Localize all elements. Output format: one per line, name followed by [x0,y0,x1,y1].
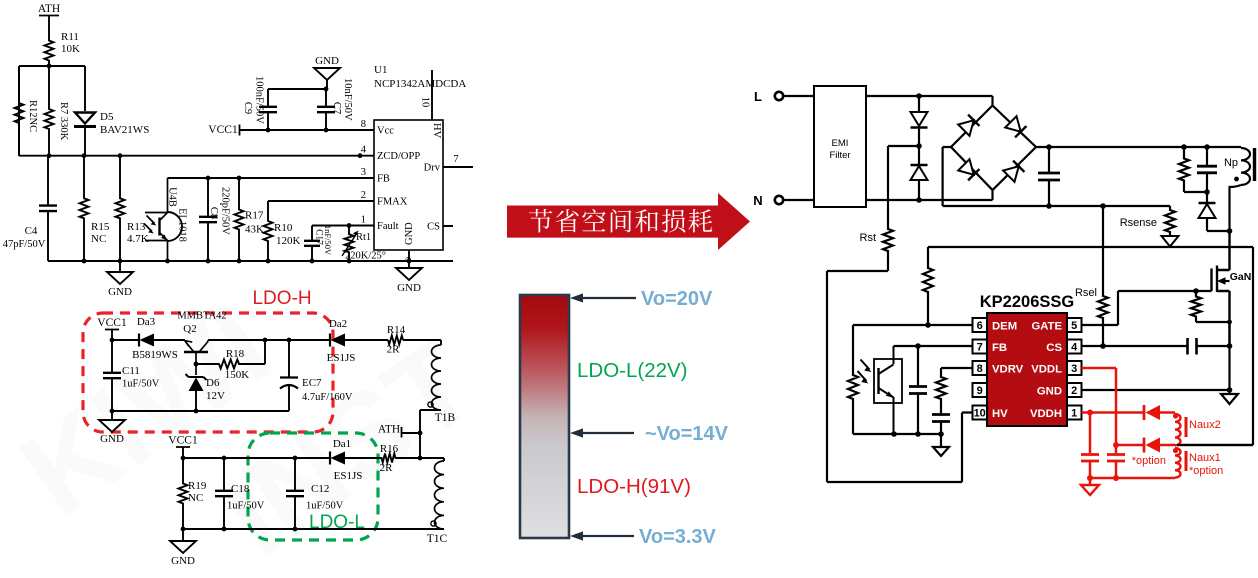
svg-text:7: 7 [977,342,983,354]
svg-text:4.7uF/160V: 4.7uF/160V [302,392,353,403]
diode clamp [1199,192,1230,231]
wire LDO-H collector rail [208,339,330,341]
svg-text:Vcc: Vcc [377,126,394,137]
pin CS [427,222,453,233]
junction dot VDDH [1087,410,1093,416]
optocoupler U4B EL1018 [144,178,188,261]
svg-text:1uF/50V: 1uF/50V [227,501,265,512]
svg-text:R13: R13 [127,221,146,233]
junction dot drain top [1227,228,1233,234]
EMI filter box [814,86,866,207]
wire T1B bottom [420,410,441,458]
capacitor C8 220pF/50V [199,178,231,261]
svg-text:LDO-H(91V): LDO-H(91V) [577,475,691,498]
junction dot gate res [1193,288,1199,294]
LDO-L dashed box [248,433,378,540]
resistor R10 120K [264,201,301,261]
terminal L [754,89,814,104]
wire source-CS [1228,322,1230,346]
pin 2 FMAX [361,190,408,208]
ground GaN source [1221,390,1238,404]
resistor R14 2R [387,324,441,356]
label LDO-L(22V) [577,359,688,382]
junction dots ZCD line [47,153,363,158]
svg-text:GaN: GaN [1230,271,1252,283]
optocoupler feedback [858,346,903,434]
svg-text:C18: C18 [231,483,250,495]
svg-text:5: 5 [1071,320,1077,332]
capacitor EC7 4.7uF/160V [280,340,353,411]
svg-text:LDO-L(22V): LDO-L(22V) [577,359,688,382]
svg-text:KP2206SSG: KP2206SSG [980,293,1074,311]
capacitor aux C2 [1107,445,1125,478]
svg-text:GND: GND [1037,386,1062,398]
resistor snubber [1179,147,1189,192]
diode D5 BAV21WS [74,66,149,156]
diode Da2 ES1JS [327,318,388,364]
svg-text:C12: C12 [311,483,329,495]
net ATH top port [38,3,60,35]
svg-text:R16: R16 [380,443,399,455]
svg-text:ATH: ATH [38,3,60,15]
bridge rectifier frame [951,106,1036,191]
svg-text:HV: HV [992,408,1008,420]
wire CS net [1082,345,1230,347]
capacitor aux C1 [1081,413,1099,479]
svg-text:43K: 43K [245,224,264,236]
svg-text:MMBTA42: MMBTA42 [177,311,226,322]
svg-text:8: 8 [977,363,983,375]
junction dot ATH [418,431,423,436]
resistor R19 NC [179,458,207,529]
wire FB net [894,345,973,347]
svg-text:C11: C11 [122,365,140,377]
svg-text:1: 1 [361,215,366,226]
junction dots red bottom [1087,475,1119,481]
svg-text:GATE: GATE [1031,321,1062,333]
svg-text:NC: NC [188,492,203,504]
capacitor C9 100nF/50V [242,76,277,130]
resistor R16 2R [380,443,444,474]
wire aux mid red [1116,444,1175,447]
inductor Naux1 [1090,448,1223,478]
junction dots FB line [206,176,242,181]
svg-text:2: 2 [1071,385,1077,397]
svg-text:2: 2 [361,190,366,201]
svg-text:R15: R15 [91,221,110,233]
resistor R7 330K [45,66,70,156]
svg-text:ATH: ATH [378,424,400,436]
resistor Rsense [1120,206,1179,247]
wire DC plus rail [1036,146,1241,148]
svg-text:9: 9 [977,385,983,397]
wire FMAX net [268,200,374,202]
svg-text:C9: C9 [242,102,253,114]
transistor Q2 MMBTA42 [177,311,226,376]
arrow Vo=3.3V [570,526,717,548]
junction dots DC minus [1046,203,1106,209]
svg-text:Da3: Da3 [137,316,156,328]
svg-text:C17: C17 [314,229,324,245]
resistor R17 43K [235,178,265,261]
resistor R13 4.7K [116,156,149,261]
capacitor snubber [1197,147,1217,192]
wire bottom bus [48,260,453,262]
svg-text:R11: R11 [61,31,79,43]
bridge diode top-left [958,115,979,136]
LDO-L label [309,512,365,533]
wire HV net [827,271,973,482]
ground GND chip [396,261,422,294]
svg-text:6: 6 [977,320,983,332]
svg-text:100nF/50V: 100nF/50V [254,76,265,124]
svg-text:4: 4 [361,145,367,156]
wire VDDH red net [1082,411,1145,414]
junction dot C7 top [324,87,329,92]
inductor Np primary [1224,147,1250,231]
bridge diode bottom-right [1003,161,1024,182]
net ATH port LDO [378,424,420,438]
inductor T1C [427,458,448,545]
net VCC1 LDO-H port [97,317,127,340]
arrow ~Vo=14V [570,423,729,445]
watermark [0,279,499,578]
resistor R11 [45,31,81,66]
svg-text:Np: Np [1224,157,1238,169]
junction dot FB [915,343,921,349]
svg-text:D6: D6 [206,377,220,389]
ground GND LDO-H [99,411,125,445]
junction dots Vcc line [266,128,329,133]
wire C9-C7 top [268,88,326,90]
svg-text:4.7K: 4.7K [127,233,149,245]
svg-text:U1: U1 [374,64,387,76]
wire LDO-H top rail [112,339,185,341]
svg-text:*option: *option [1132,455,1166,467]
svg-text:R18: R18 [226,348,245,360]
svg-text:2R: 2R [380,462,394,474]
svg-text:EMI: EMI [832,138,849,149]
capacitor C11 1uF/50V [103,340,160,411]
svg-text:GND: GND [108,286,132,298]
chip KP2206SSG [980,293,1074,426]
svg-text:GND: GND [315,55,339,67]
svg-text:Da2: Da2 [329,318,347,330]
capacitor C17 1nF/50V [304,225,333,261]
svg-text:Fault: Fault [377,221,399,232]
wire LDO-L top rail [183,457,381,459]
svg-text:ZCD/OPP: ZCD/OPP [377,151,420,162]
wire top box [19,66,85,156]
diode startup upper [911,96,928,146]
junction dots DC plus [1046,144,1210,150]
bridge diode top-right [1005,116,1026,137]
svg-text:Rsense: Rsense [1120,217,1157,229]
wire GND net [1082,389,1230,391]
junction dots LDO-L top [181,456,423,461]
resistor R18 150K [196,340,265,381]
svg-text:CS: CS [427,222,440,233]
arrow Vo=20V [570,288,713,310]
pin 10 HV [420,70,443,139]
svg-text:FB: FB [992,342,1007,354]
svg-text:HV: HV [431,123,442,139]
label LDO-H(91V) [577,475,691,498]
diode aux lower option [1132,438,1166,468]
capacitor bulk [1038,147,1060,206]
svg-text:N: N [753,193,762,208]
transformer core [1253,148,1256,181]
pin 3 FB [361,167,390,185]
capacitor C18 1uF/50V [215,458,265,529]
wire L rail [866,96,993,106]
svg-text:1uF/50V: 1uF/50V [122,379,160,390]
op-amp U1 NCP1342AMDCDA box [374,64,466,250]
svg-text:DEM: DEM [992,321,1017,333]
pin 7 Drv [424,154,473,174]
svg-text:1uF/50V: 1uF/50V [306,501,344,512]
resistor gate-source [1191,291,1232,324]
transistor GaN mosfet [1118,231,1251,346]
wire bridge minus jog [943,147,951,206]
svg-text:R7 330K: R7 330K [58,102,69,141]
bridge diode bottom-left [958,159,979,180]
ground GND LDO-L [170,529,196,567]
svg-text:EC7: EC7 [302,377,322,389]
svg-text:6: 6 [404,257,414,261]
thermistor Rt1 220K/25 [342,226,386,262]
svg-text:LDO-H: LDO-H [252,288,311,309]
LDO-H label [252,288,311,309]
svg-text:VDRV: VDRV [992,364,1024,376]
ground GND left [107,261,133,298]
inductor Naux2 [1173,413,1221,445]
svg-text:Naux2: Naux2 [1189,419,1221,431]
svg-text:FMAX: FMAX [377,197,408,208]
capacitor FB filter [909,346,927,434]
svg-text:Rsel: Rsel [1075,287,1097,299]
svg-text:220K/25°: 220K/25° [345,251,386,262]
wire source-gnd [1228,346,1230,390]
svg-text:GND: GND [100,433,124,445]
diode Da3 B5819WS [132,316,178,361]
wire ZCD/OPP net [19,155,374,157]
wire DEM net [853,324,973,326]
svg-text:T1C: T1C [427,533,448,545]
svg-text:NC: NC [91,233,106,245]
svg-text:*option: *option [1189,465,1223,477]
terminal N [753,193,814,208]
capacitor C7 10nF/50V [317,78,353,130]
svg-text:FB: FB [377,174,390,185]
svg-text:Q2: Q2 [183,323,196,335]
resistor R12 NC [15,66,39,156]
zener D6 12V [186,374,226,411]
wire black aux tap [1177,444,1253,446]
junction dots collector rail [263,338,292,343]
svg-text:10: 10 [974,408,986,420]
pin 8 Vcc [361,119,394,137]
svg-text:Filter: Filter [829,150,850,161]
svg-text:BAV21WS: BAV21WS [100,124,149,136]
svg-text:U4B: U4B [167,187,178,207]
svg-text:1nF/50V: 1nF/50V [323,225,333,256]
gradient bar [520,295,569,538]
wire snubber bottom [1184,191,1207,193]
svg-text:VCC1: VCC1 [97,317,127,329]
resistor DEM upper [923,247,933,325]
svg-text:R19: R19 [188,480,207,492]
svg-text:~Vo=14V: ~Vo=14V [645,423,729,445]
svg-text:Rt1: Rt1 [356,232,371,243]
wire DC minus bus [943,205,1170,207]
svg-text:VDDH: VDDH [1030,408,1062,420]
wire startup tap [888,145,919,147]
node junction R11 bottom [47,64,52,69]
wire Vcc net [240,129,375,131]
svg-text:NCP1342AMDCDA: NCP1342AMDCDA [374,78,466,90]
svg-text:150K: 150K [225,369,250,381]
svg-text:GND: GND [397,282,421,294]
junction dot N rail [916,197,922,203]
wire return rail [928,247,1253,445]
svg-text:C8: C8 [208,207,219,219]
capacitor C12 1uF/50V [286,458,344,529]
junction dot D6 bottom [110,409,199,414]
junction dots bottom bus right [891,431,944,437]
pin 1 Fault [361,215,399,233]
pin 4 ZCD/OPP [361,145,421,163]
svg-text:R10: R10 [274,222,293,234]
diode Da1 ES1JS [330,438,362,482]
net VCC1 LDO-L port [168,435,198,459]
junction dot Rsel-CS [1100,343,1106,349]
ground bottom bus [933,434,949,456]
wire Fault net [312,225,374,227]
svg-text:GND: GND [404,222,415,245]
svg-text:GND: GND [171,555,195,567]
svg-text:R14: R14 [387,324,406,336]
svg-text:12V: 12V [206,390,225,402]
svg-text:10: 10 [420,97,431,108]
ground GND top [314,55,340,89]
junction dots LDO-L bottom [181,527,298,532]
svg-text:R17: R17 [245,210,264,222]
junction dot startup mid [916,143,922,149]
svg-text:220pF/50V: 220pF/50V [220,187,231,235]
LDO-H dashed box [83,313,333,432]
svg-text:8: 8 [361,119,366,130]
diode startup lower [911,146,928,200]
svg-text:ES1JS: ES1JS [327,352,356,364]
svg-text:C7: C7 [331,102,342,114]
junction dot Q2 base R18 [194,362,199,367]
junction dot aux mid [1113,442,1119,448]
svg-text:T1B: T1B [435,412,456,424]
svg-text:C4: C4 [25,225,38,237]
svg-text:120K: 120K [276,235,301,247]
svg-text:EL1018: EL1018 [177,208,188,242]
chip pin boxes and labels [973,318,1082,420]
svg-text:Da1: Da1 [333,438,351,450]
diode aux upper [1144,405,1175,420]
svg-text:3: 3 [1071,363,1077,375]
junction dot L rail [916,93,922,99]
junction dot snubber [1204,189,1210,195]
svg-text:B5819WS: B5819WS [132,349,178,361]
svg-text:2R: 2R [387,344,401,356]
wire FB net [168,177,375,179]
svg-text:Vo=3.3V: Vo=3.3V [639,526,717,548]
svg-text:ES1JS: ES1JS [334,470,363,482]
inductor T1B [428,340,456,424]
wire LDO-H bottom [112,410,289,412]
svg-text:VDDL: VDDL [1031,364,1062,376]
resistor DEM lower [848,325,858,434]
wire VDDL red net [1082,368,1117,445]
capacitor C4 47pF/50V [3,156,57,261]
svg-text:47pF/50V: 47pF/50V [3,239,46,250]
junction dot gnd node [1227,387,1233,393]
resistor Rsel [1075,206,1108,346]
wire LDO-L bottom [183,528,444,530]
svg-text:VCC1: VCC1 [168,435,198,447]
net VCC1 top port [208,124,239,136]
svg-text:R12NC: R12NC [27,100,38,132]
svg-text:7: 7 [453,154,458,165]
banner text jie-sheng-kong-jian-he-sun-hao [529,209,712,233]
wire GATE net [1082,291,1119,325]
ground red aux [1081,478,1099,495]
resistor R15 NC [80,156,110,261]
pin GND chip [404,222,416,261]
capacitor CS filter [1188,338,1197,355]
junction dot VCC1 LDOH [110,338,115,343]
capacitor VDRV [932,402,950,434]
junction dots bottom bus [82,259,412,264]
junction dot DEM [925,322,931,328]
arrow banner save-space [507,193,750,250]
svg-text:4: 4 [1071,342,1078,354]
wire VDRV net [941,367,973,369]
junction dot Rt1 top [347,223,352,228]
svg-text:VCC1: VCC1 [208,124,238,136]
wire N rail [866,190,993,200]
svg-text:D5: D5 [100,111,114,123]
resistor VDRV [936,368,946,402]
wire opto bottom bus [853,433,941,435]
svg-text:Naux1: Naux1 [1189,452,1221,464]
junction dot CS-source [1227,343,1233,349]
resistor Rst [860,146,894,271]
svg-text:CS: CS [1046,342,1062,354]
svg-text:Drv: Drv [424,163,441,174]
svg-text:L: L [754,89,762,104]
svg-text:3: 3 [361,167,366,178]
svg-text:Rst: Rst [860,232,877,244]
svg-text:10nF/50V: 10nF/50V [342,78,353,121]
svg-text:10K: 10K [61,43,80,55]
svg-text:1: 1 [1071,408,1077,420]
svg-text:Vo=20V: Vo=20V [641,288,713,310]
